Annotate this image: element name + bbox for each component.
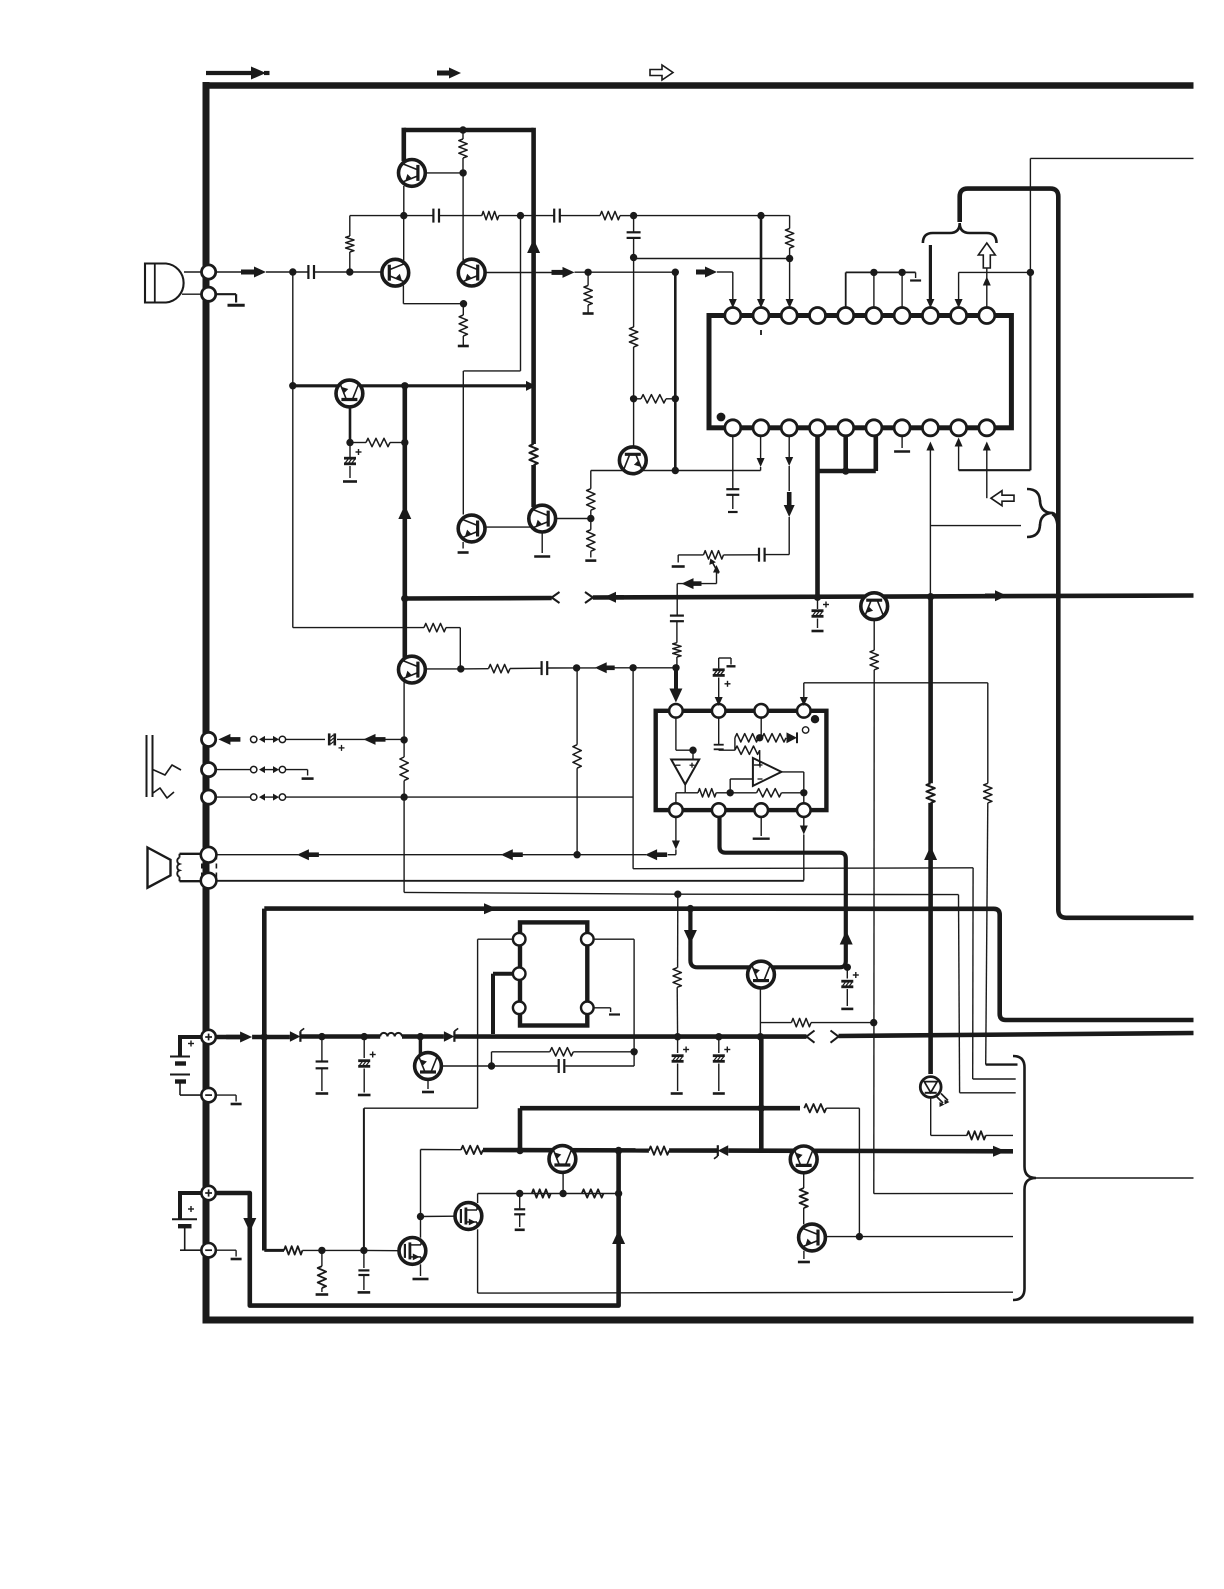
IC1 bottom pin 4: [810, 420, 826, 436]
IC1 top pin 1: [725, 308, 741, 324]
node: [689, 747, 696, 754]
wire network line: [478, 1193, 619, 1195]
wire 958 vertical: [959, 895, 1016, 1093]
IC2 bottom pin 1: [669, 803, 683, 817]
wire: [826, 1108, 859, 1236]
node: [488, 1062, 495, 1069]
node rail-resistor junction: [459, 126, 466, 133]
node: [870, 269, 877, 276]
wire mic leads: [182, 272, 202, 294]
wire: [633, 239, 635, 327]
wire LED chain: [931, 1097, 967, 1135]
IC1 pin1 mark: [717, 413, 726, 422]
wire: [462, 304, 464, 346]
brace right mid: [1027, 489, 1053, 537]
diode D1: [290, 1028, 304, 1041]
brace: [923, 223, 997, 243]
wire b1 feed: [216, 1035, 241, 1040]
wire y258 link: [634, 258, 790, 260]
wire pin1b int: [676, 793, 685, 804]
capacitor C-fb1: [433, 209, 439, 223]
capacitor C-pin2 elco: [713, 658, 736, 687]
wire trunk mid: [593, 596, 1194, 598]
resistor R-fb2: [600, 211, 620, 219]
wire: [676, 584, 678, 616]
wire Q1 collector: [401, 128, 406, 161]
open arrow left: [991, 491, 1014, 506]
IC2 pin1 mark: [811, 715, 819, 723]
resistor R-577: [573, 668, 581, 855]
resistor int row3: [698, 789, 716, 797]
wire: [440, 215, 482, 217]
terminal jack 1: [202, 732, 216, 746]
jack symbol: [147, 735, 182, 798]
wire 987 vertical: [984, 683, 1018, 1065]
resistor R-e23: [459, 315, 467, 336]
wire: [633, 347, 635, 399]
terminal battery1 plus: [201, 1030, 215, 1044]
wire jack row2: [215, 769, 250, 771]
wire thick arrow into IC2 pin1: [669, 668, 682, 703]
wire F1 drain: [420, 1217, 422, 1238]
flow arrow up on rail: [527, 239, 540, 253]
wire corner down: [789, 216, 791, 229]
node: [615, 1147, 622, 1154]
capacitor C-p1: [316, 1037, 329, 1094]
node: [516, 1190, 523, 1197]
brace output group: [1013, 1056, 1036, 1300]
mosfet F2: [455, 1203, 482, 1230]
transistor Q7: [619, 447, 646, 474]
IC2 bottom pin 4: [797, 803, 811, 817]
transistor Q8: [399, 656, 426, 683]
IC3 pin lm: [513, 967, 526, 980]
terminal speaker 1: [201, 847, 217, 863]
wire 677 riser: [673, 894, 681, 1036]
op-amp U2b: [753, 758, 782, 786]
resistor int row2: [735, 746, 760, 754]
wire: [215, 271, 242, 273]
wire thick pin2 drop: [757, 216, 765, 308]
transistor Q13: [790, 1146, 817, 1173]
transistor Q5: [336, 380, 363, 407]
wire: [521, 215, 554, 217]
node: [516, 1147, 523, 1154]
wire pin7b gnd: [894, 436, 910, 452]
signal arrow: [241, 267, 266, 278]
wire: [577, 667, 596, 669]
wire: [499, 215, 521, 217]
wire rc top: [492, 1051, 550, 1053]
IC3 pin lt: [513, 933, 526, 946]
wire pins56 bus: [818, 436, 876, 471]
IC2 bottom pin 3: [754, 803, 768, 817]
resistor int row1b: [762, 734, 786, 742]
resistor R-sw2: [649, 1146, 669, 1154]
wire border top: [203, 82, 1194, 89]
resistor VR volume: [678, 551, 723, 559]
signal arrow to IC: [696, 267, 717, 278]
wire F2 gate: [421, 1215, 455, 1217]
wire: [789, 248, 791, 259]
resistor int row1a: [735, 734, 759, 751]
node trunk junction: [401, 595, 408, 602]
wire: [676, 657, 678, 668]
diode D2: [444, 1028, 458, 1041]
wire speaker bottom: [216, 880, 803, 882]
resistor R-load: [459, 130, 467, 173]
wire 292 res link: [293, 627, 424, 629]
node: [400, 736, 407, 743]
arrow left on trunk: [604, 592, 624, 603]
wire: [548, 667, 577, 669]
wire thick 520 drop: [518, 1108, 523, 1150]
node: [842, 467, 849, 474]
resistor R-q9: [870, 650, 878, 670]
wire pin4b thick drop: [815, 436, 820, 597]
terminal jack 3: [202, 790, 216, 804]
capacitor elco jack: [329, 733, 344, 751]
wire Q9 down: [873, 620, 875, 651]
flow arrow right: [484, 903, 497, 914]
wire Q14 base: [826, 1236, 860, 1238]
IC1 radio chip: [709, 316, 1011, 428]
transistor Q10: [748, 961, 775, 988]
node: [573, 851, 580, 858]
flow arrow down: [684, 930, 697, 944]
wire: [286, 770, 308, 776]
wire: [839, 1033, 1194, 1036]
resistor R-588: [584, 272, 592, 313]
IC1 bottom pin 3: [781, 420, 797, 436]
resistor R-q5: [350, 438, 405, 446]
wire 520 drop: [463, 216, 520, 515]
wire 292 vertical: [292, 272, 294, 628]
ground: [343, 480, 357, 483]
arrow left: [501, 849, 523, 860]
wire gate line: [264, 1249, 284, 1252]
node: [573, 664, 580, 671]
ground: [672, 555, 685, 567]
resistor R-q10: [791, 1018, 811, 1026]
wire pin3b chain: [785, 436, 793, 491]
resistor R-g2: [316, 1250, 329, 1294]
transistor Q14: [799, 1224, 826, 1251]
wire Q10 branch: [760, 1022, 791, 1024]
IC1 top pin 9: [951, 308, 967, 324]
wire Q11 gnd: [422, 1079, 434, 1092]
IC2 top pin 4: [797, 704, 811, 718]
IC1 top pin 2: [753, 308, 769, 324]
IC2 top pin 3: [754, 704, 768, 718]
node: [400, 793, 407, 800]
resistor: [587, 519, 595, 558]
wire border left: [203, 82, 210, 1320]
IC1 bottom pin 1: [725, 420, 741, 436]
node: [800, 789, 807, 796]
wire: [446, 628, 460, 669]
signal arrow left: [595, 662, 615, 673]
capacitor C-g: [358, 1250, 371, 1292]
node: [401, 439, 408, 446]
wire: [986, 1134, 1013, 1136]
resistor int row4: [730, 789, 781, 797]
arrow left: [645, 849, 667, 860]
wire thick 404 vertical: [402, 386, 407, 661]
break mark: [807, 1031, 839, 1043]
transistor Q12: [549, 1146, 576, 1173]
transistor Q2: [382, 259, 409, 286]
arrow left: [218, 734, 240, 745]
wire Q3 base out: [485, 272, 552, 274]
IC1 bottom pin 2: [753, 420, 769, 436]
wire det line: [461, 668, 489, 670]
wire Q8 base: [426, 668, 461, 670]
resistor R-677: [673, 643, 681, 657]
wire thick supply top: [264, 909, 1193, 1020]
wire 973 vertical: [973, 868, 1016, 1079]
IC1 bottom pin 9: [951, 420, 967, 436]
wire top link: [955, 158, 1194, 470]
signal arrow left: [682, 578, 702, 589]
battery B1: [170, 1035, 201, 1095]
wire IC2 pin1 int: [676, 718, 693, 751]
node: [715, 1033, 722, 1040]
node: [856, 1233, 863, 1240]
wire: [560, 215, 600, 217]
wire speaker line: [215, 854, 298, 856]
flow arrow up: [840, 931, 853, 945]
wire pin2b thick path: [690, 817, 845, 967]
wire Q3 collector: [462, 258, 464, 262]
wire IC3 rb gnd: [594, 1008, 620, 1015]
op-amp U2a: [671, 760, 699, 785]
wire: [928, 803, 933, 1074]
wire: [573, 1051, 634, 1053]
wire pin9 drop: [955, 272, 963, 308]
node: [687, 905, 694, 912]
wire: [337, 738, 366, 740]
IC1 top pin 3: [781, 308, 797, 324]
wire b2 minus gnd: [216, 1250, 242, 1259]
wire op1 out: [685, 784, 698, 792]
node: [460, 300, 467, 307]
wire FET2 drain: [477, 1194, 479, 1204]
IC1 top pin 5: [838, 308, 854, 324]
wire Q1 emitter down: [403, 186, 405, 216]
ground: [583, 312, 594, 315]
inductor L1: [380, 1033, 402, 1037]
wire F1 source: [413, 1264, 429, 1279]
diode int: [787, 732, 798, 743]
node pin2 feed: [757, 212, 764, 219]
terminal mic gnd: [202, 287, 216, 301]
node: [814, 594, 821, 601]
node: [615, 1147, 622, 1154]
capacitor C-677: [670, 616, 684, 622]
capacitor C-rc: [559, 1059, 565, 1073]
node: [417, 1213, 424, 1220]
wire: [692, 750, 694, 759]
wire: [421, 1150, 462, 1217]
arrow left: [364, 734, 386, 745]
pin tick: [760, 330, 762, 335]
node: [630, 254, 637, 261]
IC3 pin rt: [581, 933, 594, 946]
capacitor elco pin4b: [812, 597, 830, 631]
LED rays: [936, 1094, 950, 1108]
node: [615, 1190, 622, 1197]
transistor Q6: [529, 505, 556, 532]
wire Q12 emitter: [562, 1172, 564, 1193]
node: [346, 439, 353, 446]
node main-line junction: [346, 268, 353, 275]
wire: [566, 1052, 635, 1066]
wire Q1 base: [426, 172, 464, 174]
IC2 top pin 2: [712, 704, 726, 718]
switch contact 3: [251, 794, 286, 801]
arrow right on trunk: [985, 590, 1007, 601]
wire thick vertical collector rail: [531, 128, 536, 386]
node: [401, 382, 408, 389]
flow arrow up: [398, 505, 411, 519]
wire: [730, 779, 753, 793]
node: [870, 1019, 877, 1026]
wire: [266, 271, 308, 273]
node: [289, 382, 296, 389]
wire thick 675 drop: [674, 272, 677, 470]
switch contact: [251, 736, 286, 743]
wire: [454, 1034, 806, 1039]
wire Q8 emitter: [403, 683, 405, 740]
terminal jack 2: [202, 763, 216, 777]
node: [587, 515, 594, 522]
capacitor C-633: [627, 232, 641, 238]
wire Q8 collector top: [403, 658, 405, 662]
IC1 bottom pin 7: [894, 420, 910, 436]
wire: [859, 1236, 1013, 1238]
capacitor C-net: [514, 1194, 525, 1230]
wire: [286, 738, 325, 740]
wire: [575, 271, 676, 273]
wire IC3 lm thick: [493, 974, 513, 1034]
wire pin1b out: [672, 817, 680, 855]
node: [844, 964, 851, 971]
wire Q6 base: [556, 518, 591, 520]
wire Q2 collector: [403, 216, 405, 261]
indicator circle: [802, 727, 808, 733]
node: [727, 789, 734, 796]
ground: [585, 559, 596, 562]
wire pin4b out: [800, 817, 808, 881]
wire Q14 gnd: [798, 1251, 810, 1262]
wire: [716, 792, 730, 794]
resistor R-fb1: [482, 211, 499, 219]
node: [261, 1033, 268, 1040]
IC1 top pin 7: [894, 308, 910, 324]
IC3 pin rb: [581, 1002, 594, 1015]
node: [629, 664, 636, 671]
wire gnd rail: [846, 272, 916, 307]
resistor R-627: [424, 623, 446, 631]
wire Q11 top: [419, 1037, 422, 1055]
resistor R-pin3: [785, 229, 793, 249]
wire: [634, 215, 761, 217]
IC1 bottom pin 8: [922, 420, 938, 436]
resistor R-net1: [532, 1189, 551, 1197]
wire thick battery2 loop: [216, 1151, 619, 1306]
wire: [724, 554, 759, 556]
wire feedback rail: [350, 215, 433, 217]
capacitor C-fb2: [554, 209, 560, 223]
wire brace link: [1053, 514, 1059, 528]
wire thick 533 lower: [529, 386, 537, 507]
speaker symbol: [148, 848, 217, 888]
node: [630, 395, 637, 402]
big arrow down: [784, 492, 795, 517]
wire IC3 lt: [364, 939, 513, 1250]
capacitor C-fb3: [759, 548, 765, 562]
wire: [765, 517, 789, 555]
node Q1 base junction: [459, 169, 466, 176]
wire F1 gate: [364, 1249, 399, 1251]
resistor R-399: [634, 395, 676, 403]
resistor R-g1: [284, 1246, 302, 1254]
transistor Q4: [458, 515, 485, 542]
wire brace cusp line: [1036, 1177, 1194, 1179]
terminal battery1 minus: [201, 1088, 215, 1102]
flow arrow right: [226, 1032, 252, 1043]
wire base-rail vertical: [462, 173, 464, 260]
wire wiper link: [677, 583, 716, 585]
resistor R-633: [629, 327, 637, 347]
wiper arrow: [709, 559, 720, 584]
wire pin10b: [983, 442, 991, 499]
wire: [300, 1034, 380, 1039]
node: [517, 212, 524, 219]
wire 634 drop: [633, 668, 973, 869]
IC1 top pin 6: [866, 308, 882, 324]
IC2 bottom pin 2: [712, 803, 726, 817]
wire: [754, 750, 760, 765]
wire right rail: [959, 271, 1031, 273]
wire pin2t arrow: [715, 678, 723, 707]
node: [674, 1033, 681, 1040]
node: [758, 1105, 765, 1112]
wire rc bottom: [441, 1065, 558, 1067]
signal flow arrow top-mid: [437, 68, 461, 79]
node trunk-930: [927, 593, 934, 600]
wire: [385, 738, 404, 740]
node: [756, 734, 763, 741]
node: [318, 1247, 325, 1254]
signal arrow: [552, 267, 575, 278]
wire pin10 up: [983, 268, 991, 307]
capacitor elco C-p2: [358, 1037, 376, 1095]
IC3 pin lb: [513, 1002, 526, 1015]
wire: [349, 252, 351, 272]
wire left drop: [349, 216, 351, 236]
wire Q6 emitter gnd: [534, 533, 550, 557]
IC1 bottom pin 6: [866, 420, 882, 436]
wire 874 long vertical: [874, 670, 1013, 1194]
wire thick 264 drop: [262, 909, 267, 1251]
wire thick switch line: [483, 1150, 1013, 1151]
terminal battery2 plus: [201, 1186, 215, 1200]
IC1 top pin 8: [922, 308, 938, 324]
node: [361, 1033, 368, 1040]
terminal mic hot: [202, 265, 216, 279]
